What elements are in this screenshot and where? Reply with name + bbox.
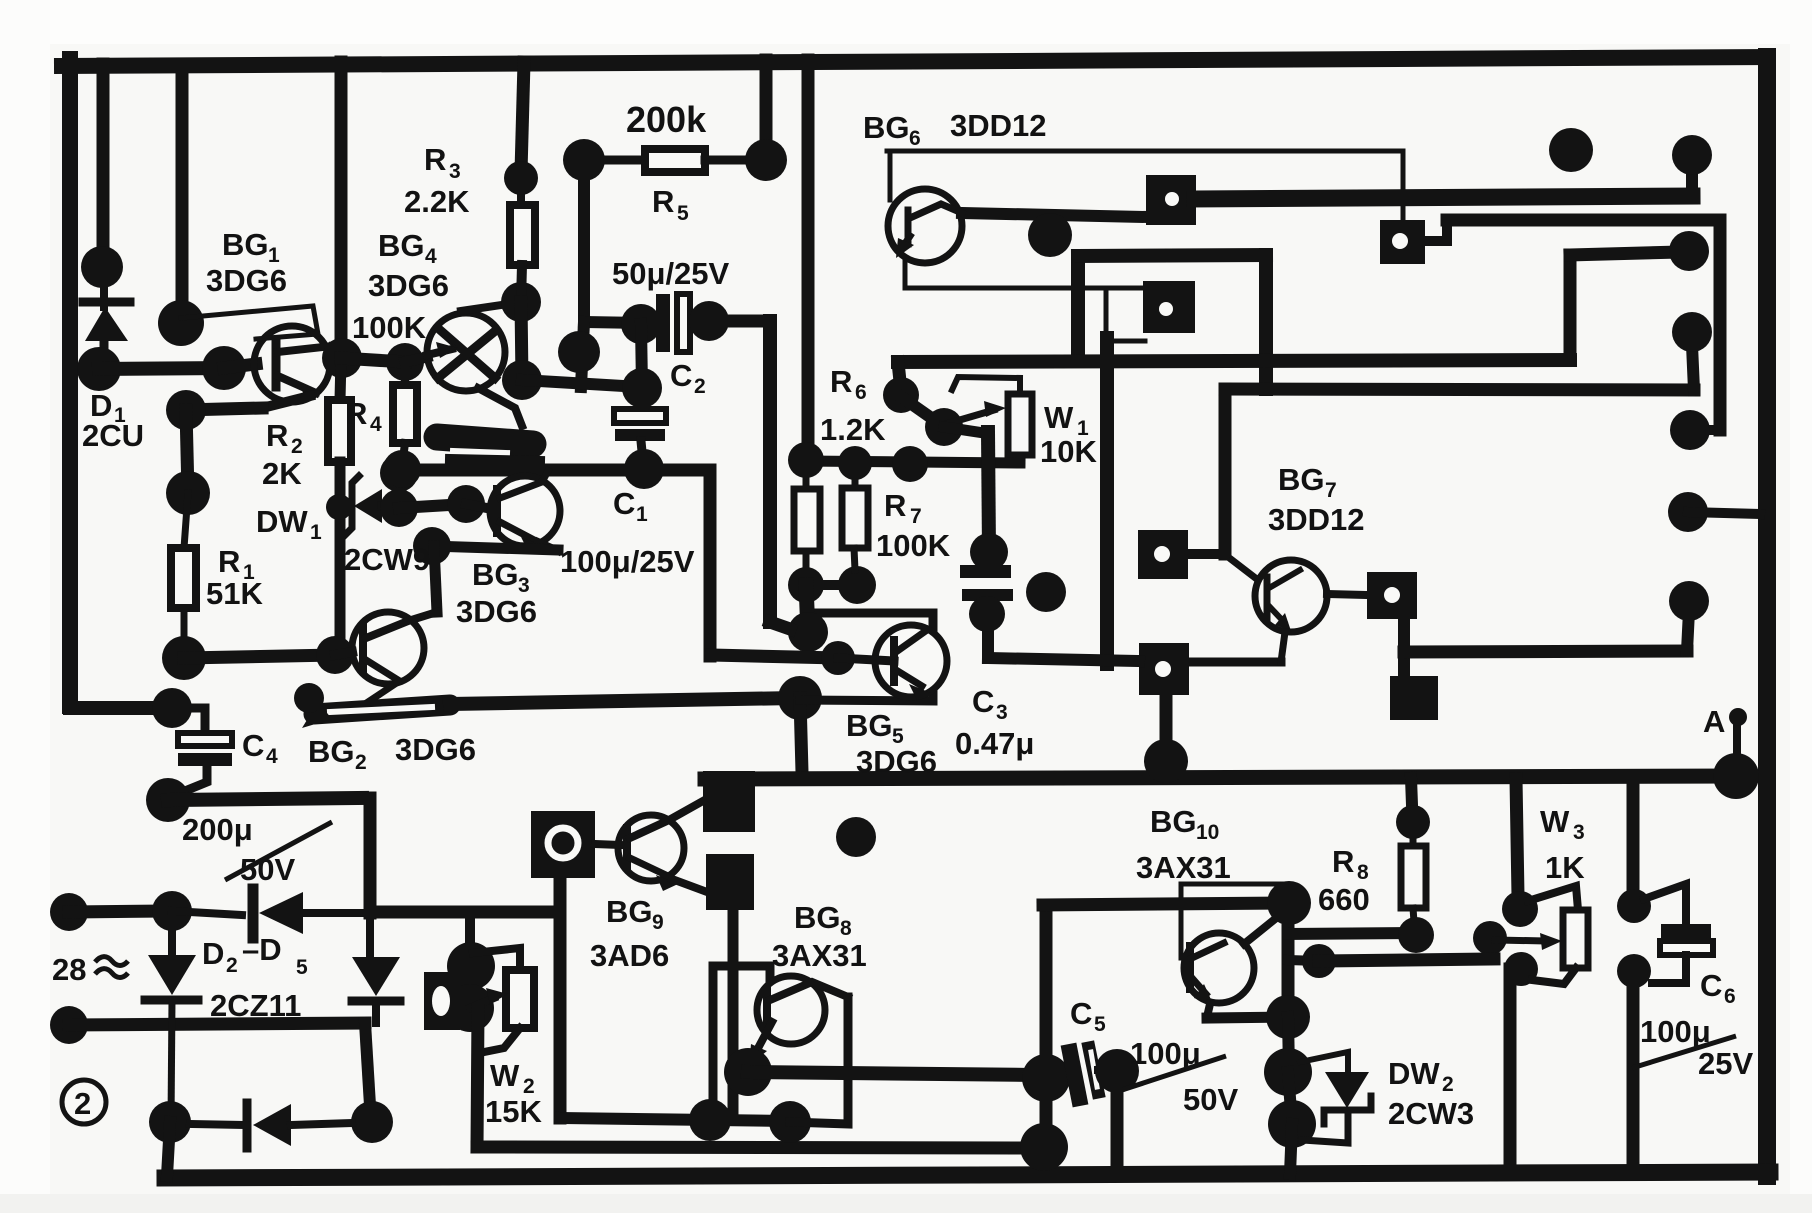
svg-text:BG: BG	[1278, 462, 1325, 497]
svg-text:2CU: 2CU	[82, 418, 144, 453]
svg-text:6: 6	[855, 381, 867, 404]
svg-text:A: A	[1703, 704, 1725, 739]
svg-text:C: C	[972, 684, 994, 719]
svg-text:BG: BG	[222, 227, 269, 262]
svg-text:2: 2	[694, 375, 706, 398]
svg-text:W: W	[1540, 804, 1570, 839]
svg-text:2: 2	[355, 751, 367, 774]
svg-text:9: 9	[652, 911, 664, 934]
svg-text:BG: BG	[846, 708, 893, 743]
svg-text:3: 3	[996, 701, 1008, 724]
svg-text:3DG6: 3DG6	[395, 732, 476, 767]
svg-text:R: R	[1332, 844, 1354, 879]
svg-text:1K: 1K	[1545, 850, 1585, 885]
svg-text:5: 5	[1094, 1013, 1106, 1036]
svg-text:BG: BG	[863, 110, 910, 145]
svg-text:10: 10	[1196, 821, 1219, 844]
svg-text:D: D	[202, 936, 224, 971]
svg-text:50μ/25V: 50μ/25V	[612, 256, 730, 291]
svg-text:2CW3: 2CW3	[1388, 1096, 1474, 1131]
svg-text:25V: 25V	[1698, 1046, 1753, 1081]
svg-text:15K: 15K	[485, 1094, 542, 1129]
svg-text:C: C	[670, 358, 692, 393]
svg-text:3: 3	[449, 160, 461, 183]
svg-text:2: 2	[291, 435, 303, 458]
svg-text:4: 4	[266, 745, 278, 768]
svg-text:R: R	[345, 396, 367, 431]
svg-text:5: 5	[677, 202, 689, 225]
svg-text:BG: BG	[606, 894, 653, 929]
svg-text:R: R	[884, 488, 906, 523]
svg-text:BG: BG	[1150, 804, 1197, 839]
svg-text:8: 8	[1357, 861, 1369, 884]
svg-text:2CW9: 2CW9	[344, 542, 430, 577]
svg-text:6: 6	[909, 127, 921, 150]
svg-text:3AX31: 3AX31	[1136, 850, 1231, 885]
svg-text:10K: 10K	[1040, 434, 1097, 469]
svg-text:3DG6: 3DG6	[368, 268, 449, 303]
svg-text:–D: –D	[242, 932, 282, 967]
svg-text:660: 660	[1318, 882, 1370, 917]
svg-text:200k: 200k	[626, 99, 707, 140]
svg-text:3DD12: 3DD12	[950, 108, 1047, 143]
svg-text:100K: 100K	[352, 310, 427, 345]
svg-text:0.47μ: 0.47μ	[955, 726, 1034, 761]
svg-text:2: 2	[1442, 1073, 1454, 1096]
svg-text:3DG6: 3DG6	[856, 744, 937, 779]
svg-text:7: 7	[910, 505, 922, 528]
svg-text:W: W	[1044, 400, 1074, 435]
svg-text:R: R	[266, 418, 288, 453]
svg-text:C: C	[1700, 968, 1722, 1003]
svg-text:R: R	[424, 142, 446, 177]
svg-text:100μ/25V: 100μ/25V	[560, 544, 695, 579]
svg-text:2.2K: 2.2K	[404, 184, 470, 219]
svg-text:200μ: 200μ	[182, 812, 253, 847]
svg-text:DW: DW	[1388, 1056, 1440, 1091]
svg-text:R: R	[218, 544, 240, 579]
svg-text:1: 1	[310, 521, 322, 544]
svg-text:8: 8	[840, 917, 852, 940]
svg-text:3: 3	[1573, 821, 1585, 844]
svg-text:50V: 50V	[1183, 1082, 1238, 1117]
svg-text:DW: DW	[256, 504, 308, 539]
svg-text:C: C	[613, 486, 635, 521]
svg-text:R: R	[830, 364, 852, 399]
svg-text:2: 2	[226, 954, 238, 977]
svg-text:2CZ11: 2CZ11	[210, 988, 301, 1023]
svg-text:5: 5	[296, 956, 308, 979]
svg-text:1.2K: 1.2K	[820, 412, 886, 447]
svg-text:4: 4	[370, 413, 382, 436]
svg-text:3AD6: 3AD6	[590, 938, 669, 973]
svg-text:6: 6	[1724, 985, 1736, 1008]
svg-text:28: 28	[52, 952, 86, 987]
svg-text:BG: BG	[308, 734, 355, 769]
svg-text:BG: BG	[472, 557, 519, 592]
svg-text:3DG6: 3DG6	[456, 594, 537, 629]
svg-text:R: R	[652, 184, 674, 219]
svg-text:3DG6: 3DG6	[206, 263, 287, 298]
svg-text:51K: 51K	[206, 576, 263, 611]
svg-text:2: 2	[74, 1086, 91, 1121]
svg-text:7: 7	[1325, 479, 1337, 502]
svg-text:W: W	[490, 1058, 520, 1093]
svg-text:C: C	[1070, 996, 1092, 1031]
svg-text:100μ: 100μ	[1640, 1014, 1711, 1049]
svg-text:1: 1	[636, 503, 648, 526]
svg-text:4: 4	[425, 245, 437, 268]
svg-text:3AX31: 3AX31	[772, 938, 867, 973]
svg-text:2K: 2K	[262, 456, 302, 491]
svg-text:BG: BG	[794, 900, 841, 935]
svg-text:BG: BG	[378, 228, 425, 263]
svg-text:C: C	[242, 728, 264, 763]
svg-text:3DD12: 3DD12	[1268, 502, 1365, 537]
svg-text:100K: 100K	[876, 528, 951, 563]
